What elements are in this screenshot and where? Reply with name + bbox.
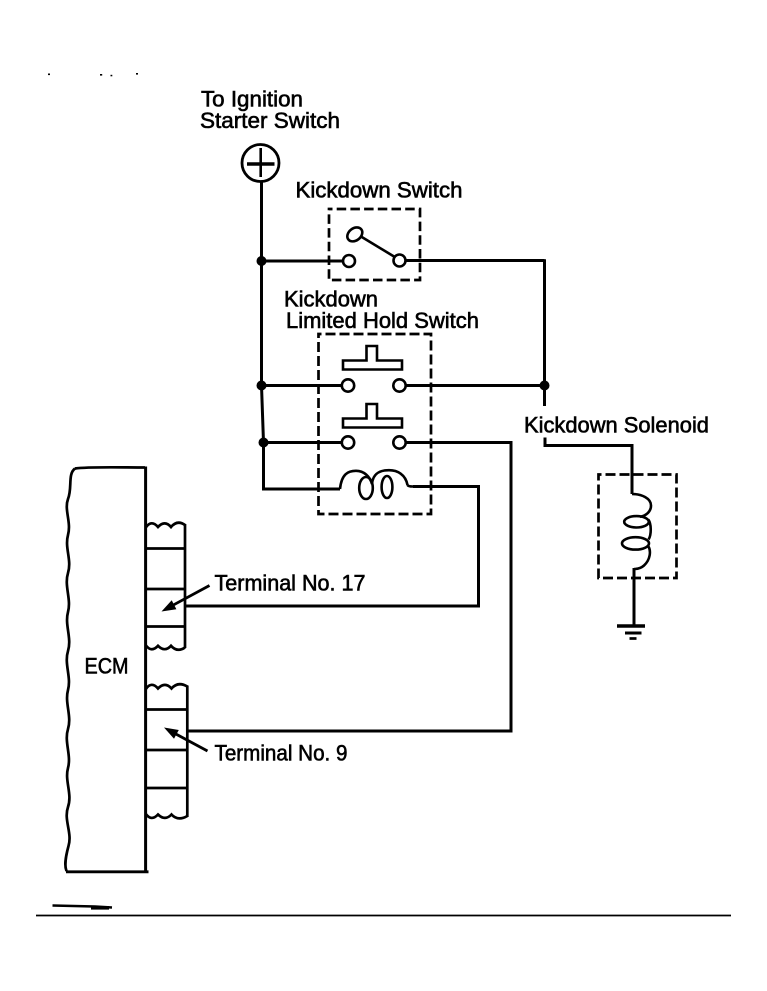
svg-text:Starter Switch: Starter Switch <box>200 108 340 133</box>
svg-text:Kickdown Solenoid: Kickdown Solenoid <box>524 413 709 438</box>
svg-text:Limited Hold Switch: Limited Hold Switch <box>286 308 479 333</box>
svg-text:Kickdown Switch: Kickdown Switch <box>296 178 463 203</box>
svg-text:Terminal No. 9: Terminal No. 9 <box>215 741 348 766</box>
svg-text:ECM: ECM <box>85 654 129 679</box>
svg-text:Terminal No. 17: Terminal No. 17 <box>215 571 366 596</box>
